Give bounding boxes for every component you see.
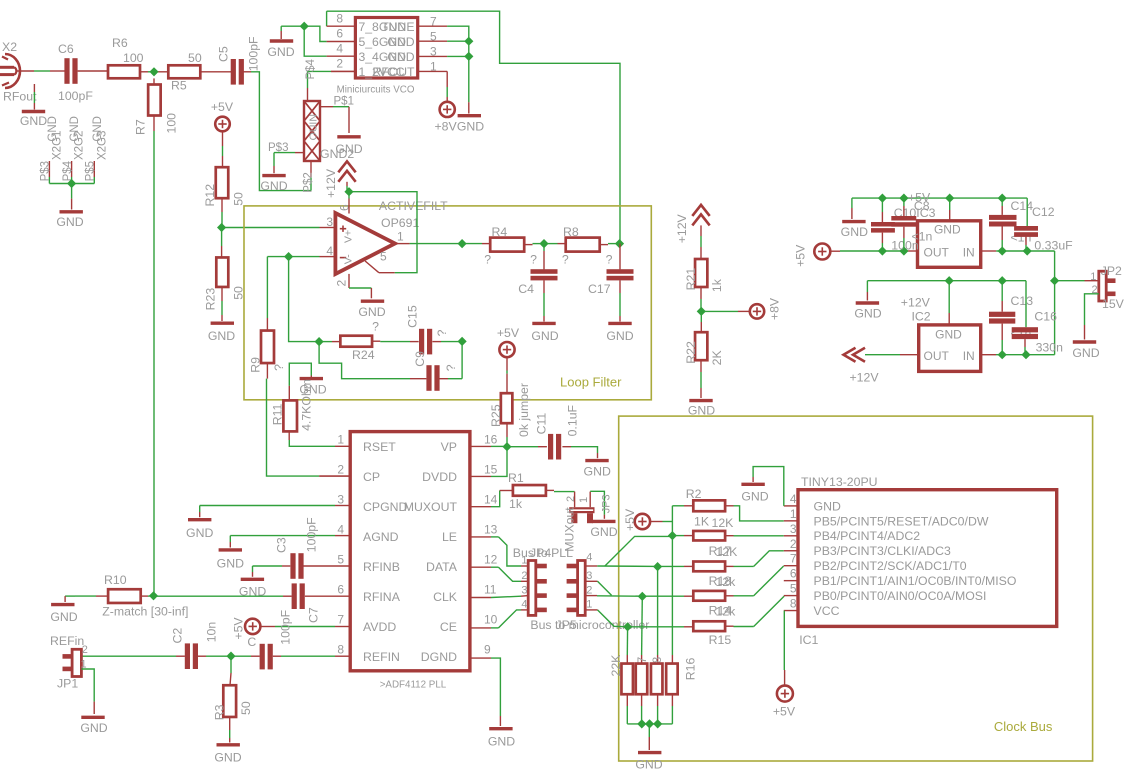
svg-text:R23: R23 [204, 288, 218, 311]
wire JP5 pin1 diagonal to R15 row [585, 610, 627, 627]
svg-text:PB0/PCINT0/AIN0/OC0A/MOSI: PB0/PCINT0/AIN0/OC0A/MOSI [814, 589, 987, 603]
supply +5V at AVDD [232, 617, 261, 649]
resistor R7 100 [134, 85, 179, 136]
ground on +5V rail left [841, 198, 868, 239]
PLL left pin numbers [337, 432, 344, 656]
svg-text:OUT: OUT [924, 245, 950, 259]
label IC1 [799, 633, 818, 647]
node 22k col2 junction [638, 592, 647, 601]
node R4/R8/C4 junction [539, 239, 548, 248]
svg-text:LE: LE [442, 530, 457, 544]
wire R7 top stub [153, 78, 155, 84]
wire IC2 GND to rail2 [948, 281, 950, 325]
wire PLL pin10 CE to JP4 pin4 [470, 610, 528, 628]
wire +5V rail [852, 197, 1027, 199]
svg-text:C2: C2 [171, 628, 185, 644]
svg-text:GND: GND [741, 490, 768, 504]
svg-text:4: 4 [521, 599, 527, 611]
supply +5V above R12 [211, 100, 234, 131]
ground under R23 [208, 287, 235, 343]
svg-text:R9: R9 [248, 357, 262, 373]
PLL right pin labels [404, 440, 458, 664]
ground JP1 [80, 717, 107, 735]
svg-text:VCC: VCC [814, 604, 840, 618]
node R24 junction [315, 337, 324, 346]
svg-text:+5V: +5V [623, 508, 637, 531]
svg-text:?: ? [444, 364, 458, 371]
svg-text:2: 2 [337, 462, 344, 476]
svg-text:P$3: P$3 [40, 161, 52, 181]
svg-text:Bus to microcontroller: Bus to microcontroller [530, 618, 649, 632]
wire PLL pin5 RFINB via C3 [253, 566, 351, 577]
supply +5V regulator input [794, 244, 831, 267]
capacitor C7 [292, 583, 321, 623]
wire PLL pin16 VP [470, 445, 507, 447]
node pin5 gnd junction [464, 37, 473, 46]
svg-text:GND: GND [854, 307, 881, 321]
svg-text:GND: GND [1072, 346, 1099, 360]
capacitor C6 100pF [58, 42, 93, 103]
svg-text:10: 10 [484, 612, 498, 626]
ground under R22 [688, 360, 715, 417]
resistor R12 50 [203, 167, 246, 206]
svg-text:2: 2 [586, 584, 592, 596]
svg-text:OUIN: OUIN [308, 114, 320, 140]
svg-text:100: 100 [123, 51, 144, 65]
svg-text:JP4: JP4 [530, 546, 551, 560]
svg-text:3: 3 [430, 44, 437, 58]
svg-text:R22: R22 [684, 341, 698, 364]
pad P$3 of X2 shield [40, 116, 64, 183]
label ADF4112 PLL [380, 680, 447, 691]
wire PLL pin4 AGND to ground [230, 536, 350, 548]
node pin4 junction [284, 252, 293, 261]
svg-text:100pF: 100pF [279, 609, 293, 644]
svg-text:100: 100 [164, 113, 178, 134]
node IN2/C13 junction [998, 350, 1007, 359]
svg-text:C15: C15 [405, 305, 419, 328]
svg-text:1: 1 [578, 497, 590, 503]
svg-text:1k: 1k [710, 278, 724, 292]
svg-text:GND: GND [260, 179, 287, 193]
svg-text:R3: R3 [213, 704, 227, 720]
svg-text:GND: GND [47, 116, 59, 142]
wire C9 to feedback node [440, 341, 463, 378]
svg-text:C3: C3 [275, 537, 289, 553]
svg-text:V-: V- [343, 254, 355, 264]
svg-text:6: 6 [336, 27, 343, 41]
svg-text:+12V: +12V [324, 168, 338, 198]
svg-text:+5V: +5V [211, 100, 234, 114]
svg-text:GND: GND [590, 525, 617, 539]
wire IC2 OUT +12V arrow [844, 348, 919, 385]
svg-text:X2: X2 [2, 40, 17, 54]
svg-text:C: C [247, 635, 256, 649]
supply +12V arrow above R21 [675, 205, 710, 259]
svg-text:GND: GND [606, 329, 633, 343]
capacitor C2 10n [171, 622, 219, 669]
TINY pin stubs [784, 506, 798, 611]
IC VCO Minicircuits box [355, 18, 417, 80]
svg-text:JP5: JP5 [556, 618, 577, 632]
wire R2 to TINY pin1 RESET [725, 506, 784, 521]
svg-text:100pF: 100pF [247, 36, 261, 71]
wire C2 to junction [198, 655, 231, 657]
resistor R23 50 [204, 257, 246, 310]
resistor R11 4.7KOhm [270, 379, 313, 431]
resistor R24 [340, 320, 379, 363]
wire PLL pin2 CP stub [319, 475, 350, 477]
node IN/C14 junction [998, 246, 1007, 255]
node feedback junction C15/C9 [458, 337, 467, 346]
ground op-amp pin2 [358, 301, 385, 319]
resistor R14 12k row4 [642, 566, 784, 619]
connector X2 (RF out) [0, 40, 37, 104]
wire module P$2 stub [303, 161, 315, 193]
wire op-amp output pin1 [395, 243, 462, 245]
op-amp U1 OP690 ACTIVEFILT [335, 213, 395, 274]
wire pin4 down to R9 [266, 257, 268, 331]
svg-text:+8V: +8V [768, 297, 782, 320]
wire R8 to output node [600, 244, 620, 245]
ground C11 [584, 461, 611, 479]
node REFIN junction [226, 652, 235, 661]
node R8/C17/TUNE junction [615, 239, 624, 248]
svg-text:C14: C14 [1011, 199, 1034, 213]
svg-text:5: 5 [380, 250, 387, 264]
svg-text:DVDD: DVDD [422, 470, 457, 484]
wire PLL pin9 DGND to ground [470, 658, 501, 726]
wire IC3 IN to 15V feed [981, 250, 1055, 252]
svg-text:Clock Bus: Clock Bus [994, 719, 1053, 734]
svg-text:12k: 12k [716, 575, 737, 589]
wire 22k column verticals [627, 567, 657, 664]
svg-text:V+: V+ [343, 230, 355, 243]
svg-text:2: 2 [521, 570, 527, 582]
svg-text:7: 7 [337, 612, 344, 626]
svg-text:C6: C6 [58, 42, 74, 56]
wire R4 to C4 node [524, 244, 544, 245]
svg-text:1: 1 [790, 507, 797, 521]
svg-text:RFOUT: RFOUT [373, 65, 416, 79]
svg-text:VP: VP [441, 440, 457, 454]
label Loop Filter [560, 375, 622, 390]
svg-text:C16: C16 [1034, 310, 1057, 324]
wire C6 to R6 [78, 70, 108, 72]
svg-text:P$4: P$4 [62, 160, 74, 181]
svg-text:CP: CP [363, 470, 380, 484]
svg-text:C9: C9 [413, 351, 427, 367]
svg-text:PB2/PCINT2/SCK/ADC1/T0: PB2/PCINT2/SCK/ADC1/T0 [814, 559, 967, 573]
wire node to +8V supply [701, 310, 749, 312]
wire R5 to C5 [200, 71, 232, 73]
ground DGND [488, 729, 515, 749]
wire VP to C11 [507, 446, 547, 448]
wire MUXout pin1 to ground [590, 491, 612, 519]
svg-text:GND2: GND2 [320, 147, 354, 161]
wire PLL pin14 MUXOUT to R1 [470, 491, 513, 507]
svg-text:+5V: +5V [773, 705, 796, 719]
ground for X2 shield [56, 184, 83, 230]
svg-text:1: 1 [1090, 271, 1096, 283]
resistor 22K pulldown 2 R17 [636, 657, 649, 694]
svg-text:R1: R1 [508, 471, 524, 485]
svg-text:8: 8 [336, 11, 343, 25]
svg-text:RFINA: RFINA [363, 590, 401, 604]
svg-text:100pF: 100pF [58, 89, 93, 103]
svg-text:1: 1 [430, 60, 437, 74]
svg-text:GND: GND [92, 116, 104, 142]
ground under C4 [531, 280, 558, 343]
svg-text:9: 9 [484, 642, 491, 656]
wire PLL pin13 LE to JP4 pin1 [470, 537, 528, 566]
resistor R2 1K [686, 487, 725, 529]
svg-text:22K: 22K [609, 654, 623, 677]
svg-text:MUXOUT: MUXOUT [404, 500, 458, 514]
svg-text:C5: C5 [217, 46, 231, 62]
wire R7 down to RFINA net [153, 116, 155, 596]
svg-text:GND: GND [217, 557, 244, 571]
wire R9 bottom to CP net [267, 363, 351, 476]
svg-text:330n: 330n [1036, 341, 1064, 355]
wire shield pads common [49, 183, 94, 185]
node VP junction [502, 442, 511, 451]
svg-text:PB3/PCINT3/CLKI/ADC3: PB3/PCINT3/CLKI/ADC3 [814, 544, 952, 558]
svg-text:5: 5 [337, 552, 344, 566]
wire JP1 pin1 to ground [81, 669, 94, 714]
pad P$5 of X2 shield [85, 116, 109, 183]
resistor R25 0k jumper [489, 383, 531, 437]
svg-text:GND: GND [531, 329, 558, 343]
wire module P$3 to ground [268, 142, 304, 173]
ground AGND [217, 550, 244, 571]
svg-text:7: 7 [790, 552, 797, 566]
svg-text:R2: R2 [686, 487, 702, 501]
wire JP2 pin2 to ground [1085, 294, 1099, 340]
ground for VCO left pins [267, 26, 294, 59]
svg-text:Miniciurcuits VCO: Miniciurcuits VCO [337, 85, 415, 96]
svg-text:C11: C11 [535, 413, 549, 435]
svg-text:IC1: IC1 [799, 633, 818, 647]
svg-text:IN: IN [963, 349, 975, 363]
svg-text:GND: GND [208, 329, 235, 343]
IC1 TINY13-20PU box [798, 490, 1057, 627]
svg-text:ACTIVEFILT: ACTIVEFILT [379, 199, 448, 213]
capacitor C14 <1n [989, 198, 1033, 251]
wire C15 to feedback node [432, 341, 462, 343]
svg-text:4: 4 [337, 522, 344, 536]
svg-text:12k: 12k [716, 605, 737, 619]
svg-text:GND: GND [387, 35, 414, 49]
svg-text:4: 4 [586, 552, 592, 564]
supply +8V near VCO [435, 102, 458, 134]
svg-text:C12: C12 [1032, 205, 1055, 219]
svg-text:GND: GND [387, 50, 414, 64]
wire pin4 to R24 row [289, 257, 320, 342]
wire junction to R3 [230, 656, 231, 685]
pad P$4 of X2 shield [62, 116, 86, 183]
svg-text:5: 5 [430, 29, 437, 43]
label Clock Bus [994, 719, 1053, 734]
wire C5 down to VCO module pad P$2 [243, 72, 311, 191]
resistor R21 1k [684, 259, 724, 292]
TINY pin numbers [790, 492, 797, 611]
svg-text:PB4/PCINT4/ADC2: PB4/PCINT4/ADC2 [814, 529, 921, 543]
wire R6 to junction to R5 [140, 71, 169, 73]
capacitor C16 330n [1012, 281, 1063, 355]
svg-text:P$1: P$1 [334, 96, 354, 108]
IC2 voltage regulator box [919, 325, 981, 372]
svg-text:R21: R21 [684, 268, 698, 291]
capacitor C10 100n [871, 198, 919, 252]
connector JP5 Bus to microcontroller [567, 552, 593, 616]
svg-text:R5: R5 [171, 79, 187, 93]
wire +12V rail IC2 [867, 280, 1026, 282]
connector JP1 REFin [50, 634, 88, 691]
wire R11 to PLL RSET pin1 [289, 431, 350, 446]
svg-text:<1n: <1n [912, 230, 933, 244]
svg-text:RFout: RFout [3, 90, 37, 104]
svg-text:1K: 1K [694, 515, 710, 529]
wire +5V to R25 [506, 357, 508, 393]
svg-text:JP1: JP1 [57, 677, 78, 691]
svg-text:PB5/PCINT5/RESET/ADC0/DW: PB5/PCINT5/RESET/ADC0/DW [814, 514, 989, 528]
svg-text:GND: GND [186, 526, 213, 540]
svg-text:IC3: IC3 [916, 206, 935, 220]
node +12V to op-amp V+ junction [344, 187, 353, 196]
wire op-amp pin2 to ground [349, 274, 371, 298]
VCO module pad block [304, 101, 320, 161]
svg-text:15: 15 [484, 462, 498, 476]
op-amp labels [379, 199, 448, 230]
resistor 22K pulldown 3 R18 [651, 657, 664, 694]
svg-text:3: 3 [586, 570, 592, 582]
node junction R6/R5/R7 [149, 67, 158, 76]
label Bus to microcontroller / JP5 [530, 618, 649, 632]
svg-text:P$3: P$3 [268, 142, 288, 154]
svg-text:GND: GND [488, 735, 515, 749]
svg-text:6: 6 [790, 567, 797, 581]
svg-text:R10: R10 [104, 573, 127, 587]
supply +5V for pullups [623, 508, 650, 531]
wire PLL pin6 RFINA via C7 [154, 595, 351, 597]
svg-text:CE: CE [440, 620, 457, 634]
svg-text:IC2: IC2 [912, 310, 931, 324]
svg-text:>ADF4112 PLL: >ADF4112 PLL [380, 680, 447, 691]
svg-text:12K: 12K [716, 545, 739, 559]
wire VCO pin1 to +8V [446, 71, 448, 101]
resistor R1 1k [508, 471, 546, 511]
wire to R4 [462, 243, 490, 245]
svg-text:JP2: JP2 [1101, 264, 1122, 278]
svg-text:R24: R24 [352, 348, 375, 362]
node rail junctions [878, 194, 1007, 203]
wire VCO pin8 TUNE net to loop filter output [327, 11, 620, 243]
wire PLL pin3 CPGND to ground [200, 506, 351, 518]
svg-text:AVDD: AVDD [363, 620, 396, 634]
wire rail2 to JP2 pin1 [1055, 280, 1099, 282]
wire to R24 [319, 341, 340, 343]
resistor 22K pulldown 1 [609, 654, 633, 694]
svg-text:1: 1 [397, 230, 404, 244]
svg-text:GND: GND [814, 499, 841, 513]
wire JP5 pin3 diagonal [585, 581, 611, 595]
VCO pin stubs right [418, 26, 448, 71]
resistor R3 50 [213, 685, 253, 720]
capacitor C9 [413, 351, 458, 391]
svg-text:4: 4 [336, 42, 343, 56]
node OUT/C8 junction [899, 246, 908, 255]
svg-text:1k: 1k [509, 497, 523, 511]
svg-text:R15: R15 [709, 633, 732, 647]
svg-text:GND: GND [841, 225, 868, 239]
svg-text:R7: R7 [134, 119, 148, 135]
node 22k col1 junction [623, 622, 632, 631]
box Loop Filter [244, 206, 651, 400]
supply +5V above R25 [497, 326, 520, 357]
svg-text:12: 12 [484, 552, 498, 566]
svg-text:+8V: +8V [435, 120, 458, 134]
PLL right pin numbers [484, 432, 498, 656]
wire +5V to R12 [222, 131, 224, 167]
svg-text:CLK: CLK [433, 590, 458, 604]
node rail2 junctions [945, 276, 1060, 285]
resistor 22K pulldown 4 R16 [666, 657, 697, 694]
capacitor C4 shunt [518, 244, 557, 296]
svg-text:RSET: RSET [363, 440, 396, 454]
wire junction to C1 cap [231, 655, 260, 657]
svg-text:JP3: JP3 [600, 494, 612, 513]
wire R12 to op-amp pin3 net [221, 198, 223, 227]
svg-text:50: 50 [239, 701, 253, 715]
svg-text:2: 2 [336, 57, 343, 71]
resistor R9 [248, 331, 286, 373]
wire module P$1 to ground [320, 107, 349, 133]
ground under C17 [606, 280, 633, 343]
svg-text:11: 11 [484, 582, 497, 596]
svg-text:P$4: P$4 [305, 58, 317, 79]
svg-text:+5V: +5V [908, 191, 931, 205]
wire RF net X2 to C6 [17, 70, 65, 72]
svg-text:8: 8 [790, 597, 797, 611]
svg-text:3: 3 [521, 584, 527, 596]
wire JP5 pin2 to 12k row4 [585, 595, 642, 598]
svg-text:R25: R25 [489, 404, 503, 427]
svg-text:GND: GND [935, 328, 962, 342]
capacitor C12 0.33uF [1014, 198, 1073, 252]
svg-text:14: 14 [484, 492, 498, 506]
resistor R17 12k row2 [672, 516, 783, 559]
wire C11 to ground [562, 447, 597, 459]
wire TINY pin8 VCC to +5V [783, 611, 785, 686]
wire 15V vertical [1054, 251, 1056, 355]
node IN/C12 junction [1023, 246, 1032, 255]
svg-text:CPGND: CPGND [363, 500, 408, 514]
wire to R8 [544, 243, 566, 245]
svg-text:GND: GND [457, 120, 484, 134]
svg-text:IN: IN [963, 245, 975, 259]
ground CPGND [186, 520, 213, 540]
svg-text:GND: GND [635, 758, 662, 772]
svg-text:?: ? [606, 253, 613, 267]
svg-text:+5V: +5V [497, 326, 520, 340]
svg-text:MUXout: MUXout [563, 507, 577, 552]
svg-text:C7: C7 [307, 607, 321, 623]
op-amp pin numbers [326, 204, 404, 287]
svg-text:GND: GND [214, 751, 241, 765]
supply +8V [750, 297, 782, 320]
capacitor C13 <1n [989, 281, 1033, 355]
